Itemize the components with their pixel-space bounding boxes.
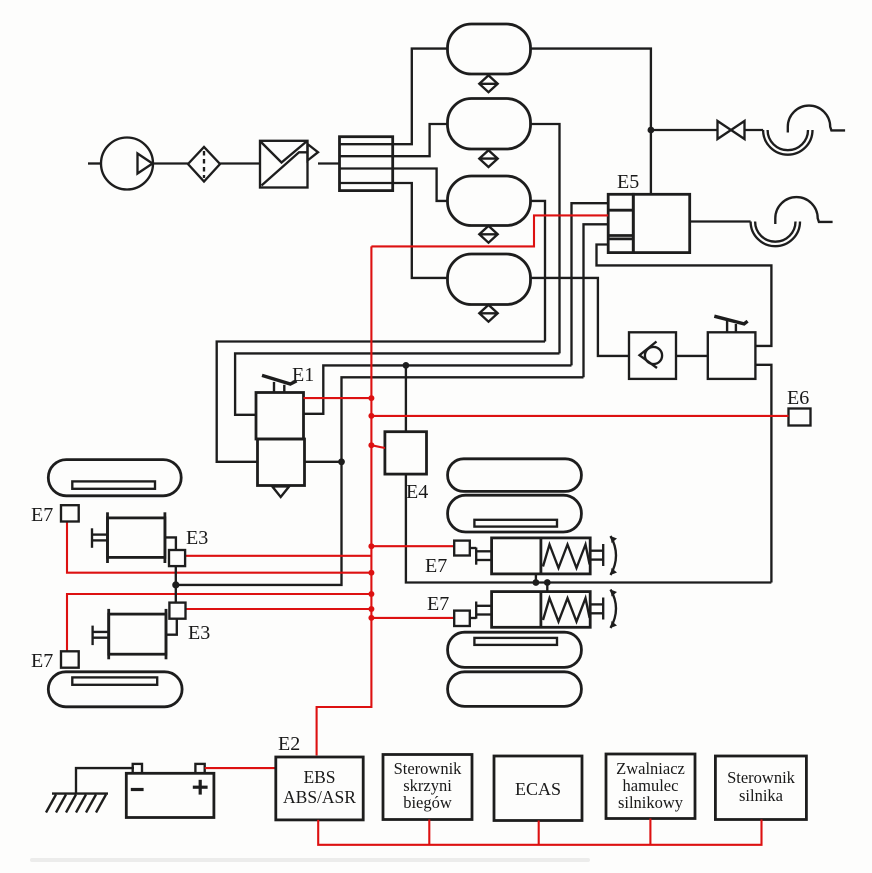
hand brake lever: [714, 316, 747, 332]
svg-text:ABS/ASR: ABS/ASR: [283, 787, 356, 807]
slack adjuster arrow lower: [611, 590, 617, 629]
wire red: ECAS drop: [538, 821, 540, 845]
wire: tank2 down to bundle L2: [531, 124, 560, 353]
spring upper: [543, 545, 590, 569]
wire red: CAN bus bottom: [318, 820, 761, 845]
slack adjuster arrow upper: [611, 536, 617, 575]
wire: E3 lower sensor to chamber front lower: [166, 619, 177, 635]
svg-text:E7: E7: [31, 504, 53, 526]
chamber upper left fork: [470, 548, 492, 565]
wire red: lower E3 sensor to bus: [185, 608, 371, 610]
wire red: bus to rear lower E7: [371, 617, 454, 619]
shut-off valve: [718, 121, 745, 139]
front left tire: [48, 460, 181, 496]
spring brake chamber lower: [492, 592, 591, 628]
wire red: front lower E7 to bus: [67, 594, 371, 651]
wire: E5 right port to rear coupling: [690, 220, 751, 222]
wire: E5 port3 to bundle L4: [584, 224, 609, 377]
hand brake valve: [708, 332, 756, 379]
hose coupling rear (from E5): [751, 197, 833, 246]
svg-text:E3: E3: [186, 527, 208, 549]
wire: tank3 down to bundle L1: [531, 201, 546, 342]
rear tire outer lower: [448, 672, 582, 707]
chamber front lower inlet tee: [93, 626, 109, 646]
rear tire inner lower: [448, 632, 582, 667]
wire red: bus to E4: [371, 445, 385, 448]
svg-text:Sterownik: Sterownik: [727, 768, 796, 787]
drain valve under tank3: [479, 226, 497, 243]
wire: check valve to hand brake valve: [676, 355, 708, 357]
drain valve under tank1: [479, 75, 497, 92]
spring lower: [543, 598, 590, 621]
E1 pedal lever: [262, 375, 297, 392]
wire: dryer port4 to tank4: [393, 183, 448, 278]
box Sterownik silnika: [715, 756, 806, 820]
compressor: [101, 138, 153, 190]
svg-text:E1: E1: [292, 364, 314, 386]
wire: hand valve lower port down to rear axle line: [755, 365, 771, 583]
svg-text:E2: E2: [278, 733, 300, 755]
wire red: E5 to red bus: [371, 215, 608, 246]
front left rim bar: [72, 481, 155, 488]
svg-text:E7: E7: [425, 555, 447, 577]
wire: compressor to filter: [153, 162, 188, 164]
wire: inlet stub to compressor: [88, 162, 102, 164]
box ECAS: [494, 756, 582, 821]
air tank 3: [448, 176, 531, 226]
wire L4: E5 port3 down to E1 lower-right and front axle: [176, 377, 584, 585]
connector E6: [789, 409, 811, 426]
svg-text:silnika: silnika: [739, 786, 784, 805]
E1 exhaust: [272, 487, 289, 498]
battery: [126, 773, 214, 817]
wire red: bus to E6: [371, 415, 788, 417]
wire: valve to front hose coupling: [745, 129, 764, 131]
wire red: bus to E1: [304, 397, 372, 399]
wire red: main bus vertical: [317, 246, 372, 755]
drain valve under tank2: [479, 150, 497, 167]
svg-text:biegów: biegów: [403, 793, 452, 812]
foot brake valve E1: [256, 393, 305, 486]
sensor connector E7 rear upper: [454, 541, 470, 556]
wire L3: E5 port1 to E1 upper-right port: [304, 365, 572, 413]
air tank 4: [448, 254, 531, 305]
svg-text:EBS: EBS: [303, 767, 335, 787]
wire: tank4 to check valve: [531, 278, 630, 356]
svg-text:E7: E7: [31, 650, 53, 672]
svg-text:E3: E3: [188, 622, 210, 644]
wire: dryer port3 to tank3: [393, 169, 448, 201]
wire: junction to shut-off valve: [651, 129, 718, 131]
ECU box E2 EBS ABS/ASR: [276, 757, 363, 820]
brake chamber front lower: [109, 609, 166, 659]
wire L2: tank2 line to E1 upper-left port: [235, 353, 559, 414]
wire: dryer port2 to tank2: [393, 124, 448, 156]
check valve: [629, 332, 676, 379]
wire L1: tank3 line to E1 lower-left port: [217, 342, 545, 462]
rear upper rim bar: [474, 520, 557, 527]
rear lower rim bar: [474, 638, 557, 645]
front lower rim bar: [72, 677, 157, 684]
svg-text:silnikowy: silnikowy: [618, 793, 684, 812]
junction: front axle tee: [172, 581, 179, 588]
junction: L3 to E4: [403, 362, 410, 369]
wire red: front upper E7 to bus: [67, 522, 371, 573]
junction: E1 lower-right port on L4 drop: [338, 458, 345, 465]
box Zwalniacz hamulec silnikowy: [606, 754, 695, 819]
svg-text:ECAS: ECAS: [515, 779, 561, 799]
wire: E3 upper sensor down to tee: [175, 566, 177, 603]
chamber lower right rod: [590, 598, 603, 620]
sensor connector E7 front upper: [61, 505, 79, 521]
wire red: upper E3 sensor to bus: [185, 555, 371, 557]
rear tire outer upper: [448, 459, 582, 492]
wire: ground to battery minus post: [76, 768, 134, 794]
pressure governor: [260, 141, 308, 188]
rear tire inner upper: [448, 495, 582, 532]
wire red: retarder drop: [649, 819, 651, 845]
spring brake chamber upper: [492, 538, 591, 574]
wire: E5 port1 to bundle L3: [572, 203, 609, 365]
wire: E1 lower-right port: [305, 461, 342, 463]
chamber front upper inlet tee: [92, 528, 108, 548]
air tank 2: [448, 99, 531, 150]
wire: E4 bottom down to rear axle line: [406, 474, 772, 582]
ABS sensor E3 lower: [169, 603, 185, 619]
wire red: gearbox ECU drop: [428, 820, 430, 845]
wire: governor to air dryer: [318, 162, 340, 164]
sensor connector E7 rear lower: [454, 611, 470, 626]
filter F1 (line filter diamond): [188, 147, 220, 182]
svg-text:E6: E6: [787, 387, 809, 409]
wire: tank1 to E5 top and front coupling branch: [531, 49, 651, 195]
wire red: battery plus to E2: [205, 767, 276, 769]
ABS sensor E3 upper: [169, 550, 185, 566]
drain valve under tank4: [479, 305, 497, 322]
box Sterownik skrzyni biegow: [383, 755, 472, 820]
wire: E5 bottom port loop to hand valve: [597, 245, 772, 346]
wire: L3 junction down to E4 top: [405, 365, 407, 431]
scan smudge: [30, 858, 590, 862]
hose coupling front (top right): [763, 106, 845, 155]
battery minus sign: [131, 788, 144, 791]
svg-text:E7: E7: [427, 593, 449, 615]
chamber upper right rod: [590, 544, 603, 566]
wire: filter to governor: [220, 162, 260, 164]
junction on tank1 line: [648, 127, 655, 134]
air tank 1: [448, 24, 531, 74]
junction: upper chamber stub: [533, 579, 540, 586]
wire: chamber front upper to E3 sensor: [165, 537, 176, 550]
brake chamber front upper: [108, 512, 165, 563]
chamber lower left fork: [470, 602, 492, 619]
trailer control valve E5: [608, 194, 690, 252]
front left tire lower: [48, 672, 182, 707]
battery plus sign: [193, 780, 208, 795]
sensor connector E7 front lower: [61, 651, 79, 667]
ground: [46, 794, 108, 813]
ECAS valve E4: [385, 432, 427, 474]
wire: dryer port1 to tank1: [393, 49, 448, 145]
svg-text:E5: E5: [617, 171, 639, 193]
svg-text:E4: E4: [406, 481, 428, 503]
junction: lower chamber stub: [544, 579, 551, 586]
wire red: bus to rear upper E7: [371, 545, 454, 547]
air dryer / 4-circuit protection valve: [340, 137, 393, 191]
